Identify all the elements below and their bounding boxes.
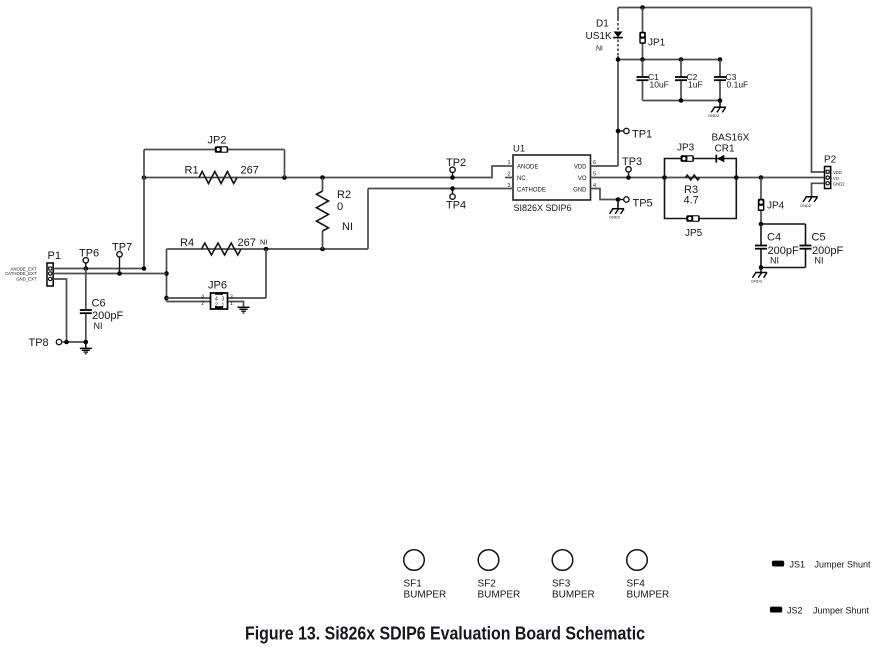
svg-text:NI: NI [260,238,268,247]
bumper SF1 [404,550,447,601]
wire pin2 NC stub [505,177,513,179]
svg-text:GND2: GND2 [833,182,845,187]
svg-text:JP4: JP4 [767,201,785,212]
capacitor C3 [714,60,748,101]
jumper shunt JS1 [772,560,871,570]
svg-text:JS2: JS2 [787,606,803,616]
svg-text:JP6: JP6 [208,280,227,292]
svg-text:R2: R2 [337,189,351,201]
ground at JP6 pin1 [238,307,250,313]
wire anode main left [142,166,513,180]
caption [245,624,645,644]
svg-text:1: 1 [507,160,510,166]
svg-text:TP4: TP4 [446,200,466,212]
svg-text:4.7: 4.7 [684,195,699,207]
svg-text:CATHODE: CATHODE [517,188,546,194]
svg-text:NI: NI [94,321,103,331]
jumper JP2 with loop [144,135,285,269]
svg-text:NI: NI [596,46,603,53]
svg-text:BAS16X: BAS16X [712,133,750,144]
wire R4 R2 bottom run [167,247,369,252]
svg-text:GND2: GND2 [609,215,621,220]
svg-text:BUMPER: BUMPER [627,590,670,601]
svg-text:NI: NI [770,256,779,266]
svg-text:2: 2 [201,301,204,307]
capacitor C1 [637,60,669,101]
bumper SF2 [478,550,521,601]
svg-text:GND2: GND2 [800,203,812,208]
svg-text:C6: C6 [92,298,106,310]
ground GND2 under C4 [751,265,767,283]
svg-text:SF3: SF3 [552,579,571,590]
svg-text:Jumper Shunt: Jumper Shunt [815,560,872,570]
svg-text:GND2: GND2 [751,279,763,284]
wire cathode [368,186,513,191]
capacitor C4 [755,224,799,268]
node TP2 [446,157,466,178]
svg-text:0.1uF: 0.1uF [727,80,749,90]
svg-text:NI: NI [815,256,824,266]
svg-text:JS1: JS1 [790,560,806,570]
node TP4 [446,189,466,212]
svg-text:NI: NI [342,221,353,233]
node TP3 [622,156,642,178]
svg-text:ANODE: ANODE [517,165,538,171]
svg-text:2: 2 [507,172,510,178]
wire VDD to P2 [812,8,825,173]
wire gnd ext [53,279,66,342]
wire JP6 loop [164,249,266,307]
wire VDD vertical with D1 branch [617,8,619,167]
wire top rail [618,5,812,10]
wire pin4 GND path [591,189,621,202]
svg-text:6: 6 [593,160,596,166]
svg-text:Figure 13. Si826x SDIP6 Evalua: Figure 13. Si826x SDIP6 Evaluation Board… [245,624,645,644]
svg-text:2: 2 [215,303,218,309]
svg-text:C5: C5 [812,232,826,244]
bumper SF3 [552,550,595,601]
wire capacitor bottom rail [643,98,723,103]
jumper JP3 [677,143,695,162]
jumper JP5 [685,215,703,239]
svg-text:D1: D1 [596,19,609,30]
svg-text:SF1: SF1 [404,579,423,590]
svg-text:3: 3 [230,295,233,301]
svg-text:TP2: TP2 [446,157,466,169]
svg-text:GND: GND [573,188,587,194]
svg-text:JP5: JP5 [685,228,703,239]
svg-text:P1: P1 [48,250,61,262]
wire pin6 VDD stub [591,165,619,167]
jumper JP1 [639,8,665,60]
svg-text:10uF: 10uF [650,80,669,90]
wire P2 ground [812,183,825,196]
jumper JP4 [758,178,785,227]
diode D1 [586,19,623,53]
svg-text:TP5: TP5 [633,197,653,209]
wire anode ext [53,266,146,271]
jumper JP6 [201,280,233,310]
wire capacitor top rail [616,57,723,62]
svg-text:JP1: JP1 [648,38,666,49]
wire cathode riser [367,189,369,250]
capacitor C2 [675,60,703,101]
ground GND2 under TP5 [609,200,624,220]
svg-text:VO: VO [578,176,587,182]
wire R3 loop bottom branch [665,178,737,219]
diode CR1 [712,133,750,163]
svg-text:C4: C4 [767,232,781,244]
ground GND2 under C3 [708,101,726,119]
node TP8 [29,337,89,349]
svg-text:VDD: VDD [574,165,587,171]
svg-text:JP2: JP2 [208,135,227,147]
svg-text:TP6: TP6 [79,248,99,260]
node TP1 [616,128,652,140]
capacitor C6 [80,269,124,343]
svg-text:1: 1 [222,303,225,309]
svg-text:0: 0 [337,201,343,213]
wire R3 loop top branch [665,159,737,178]
svg-text:267: 267 [238,237,256,249]
node TP7 [112,242,132,274]
svg-text:SI826X SDIP6: SI826X SDIP6 [514,203,572,214]
svg-text:BUMPER: BUMPER [478,590,521,601]
svg-text:GND2: GND2 [708,113,720,118]
resistor R3 [684,175,700,206]
svg-text:Jumper Shunt: Jumper Shunt [813,606,870,616]
svg-text:CR1: CR1 [715,144,735,155]
capacitor C5 [800,224,844,268]
svg-text:1uF: 1uF [688,80,703,90]
svg-text:TP7: TP7 [112,242,132,254]
svg-text:GND_EXT: GND_EXT [16,276,37,281]
svg-text:BUMPER: BUMPER [552,590,595,601]
jumper shunt JS2 [770,606,870,616]
svg-text:JP3: JP3 [677,143,695,154]
svg-text:US1K: US1K [586,31,612,42]
svg-text:TP1: TP1 [632,128,652,140]
node TP5 [618,197,653,210]
bumper SF4 [627,550,670,601]
chip U1 SI826X SDIP6 [507,144,596,215]
svg-text:NC: NC [517,176,526,182]
svg-text:267: 267 [241,165,259,177]
ground under C6 [80,342,92,354]
svg-text:U1: U1 [513,144,525,155]
resistor R4 [180,237,268,255]
svg-text:SF2: SF2 [478,579,497,590]
ground GND2 at P2 [800,197,818,208]
svg-text:1: 1 [230,301,233,307]
svg-text:5: 5 [593,172,596,178]
svg-text:BUMPER: BUMPER [404,590,447,601]
svg-text:VO: VO [833,176,840,181]
wire C4 C5 box [761,224,806,268]
svg-text:R4: R4 [180,237,194,249]
svg-text:VDD: VDD [833,170,842,175]
svg-text:SF4: SF4 [627,579,646,590]
connector P1 [5,250,61,286]
wire VO right [591,175,825,180]
svg-text:R1: R1 [185,165,199,177]
connector P2 [824,155,845,189]
wire cathode ext [53,271,166,276]
svg-text:4: 4 [201,295,204,301]
resistor R2 [317,178,354,250]
svg-text:TP3: TP3 [622,156,642,168]
resistor R1 [185,165,259,184]
node TP6 [79,248,99,269]
svg-text:P2: P2 [824,155,837,166]
svg-text:TP8: TP8 [29,337,49,349]
